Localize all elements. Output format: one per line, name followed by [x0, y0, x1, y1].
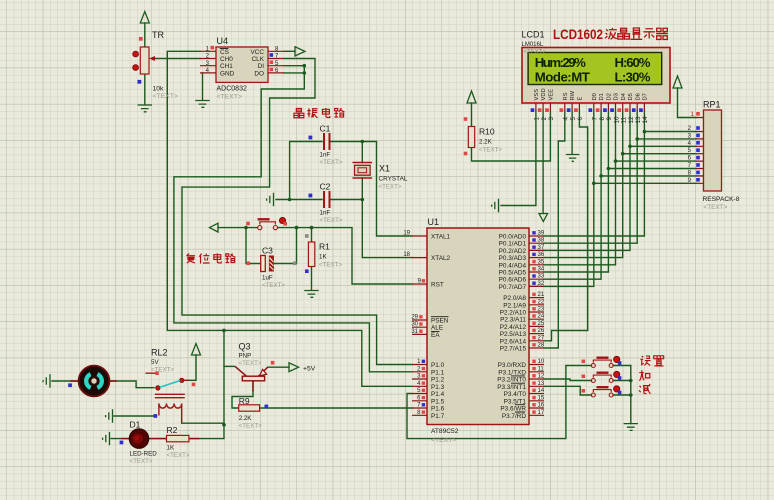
- wire D4 to P0.3: [544, 111, 623, 258]
- svg-text:X1: X1: [379, 164, 390, 174]
- svg-text:D0: D0: [592, 93, 598, 100]
- svg-text:33: 33: [538, 274, 545, 280]
- relay RL2: [146, 348, 196, 424]
- svg-text:<TEXT>: <TEXT>: [167, 452, 190, 459]
- junction D6 to RP1: [635, 137, 639, 141]
- wire VEE to R10 bottom: [472, 111, 551, 162]
- svg-text:P1.0: P1.0: [431, 362, 445, 369]
- svg-text:RW: RW: [570, 90, 576, 100]
- ground rotated at C2 left: [267, 193, 274, 206]
- svg-text:VEE: VEE: [549, 89, 555, 101]
- left pin stubs: [412, 236, 427, 415]
- svg-text:RP1: RP1: [703, 100, 721, 110]
- svg-text:P1.7: P1.7: [431, 413, 445, 420]
- svg-text:AT89C52: AT89C52: [431, 428, 459, 435]
- button SET: [582, 356, 622, 367]
- capacitor C1: [309, 124, 343, 167]
- svg-text:D1: D1: [599, 93, 605, 100]
- wire C1 left vertical: [290, 142, 322, 200]
- motor: [68, 366, 117, 397]
- svg-text:PSEN: PSEN: [431, 318, 449, 325]
- wire D3 branch to RP1 pin6: [616, 160, 697, 162]
- svg-text:P1.1: P1.1: [431, 369, 445, 376]
- svg-text:VDD: VDD: [541, 88, 547, 100]
- svg-text:GND: GND: [220, 70, 235, 77]
- wire C1 net: gnd-left to C1: [276, 199, 322, 201]
- svg-text:D5: D5: [628, 93, 634, 100]
- ground rotated at D1 left: [103, 432, 110, 445]
- svg-text:LM016L: LM016L: [522, 42, 544, 48]
- wire gnd to D1: [111, 438, 130, 440]
- svg-text:P1.5: P1.5: [431, 398, 445, 405]
- svg-text:P3.4/T0: P3.4/T0: [504, 391, 527, 398]
- svg-text:32: 32: [538, 281, 545, 287]
- ADC U4: [200, 36, 284, 101]
- svg-text:14: 14: [538, 388, 545, 394]
- svg-text:P1.6: P1.6: [431, 406, 445, 413]
- svg-text:D1: D1: [130, 420, 141, 430]
- junction C2 right / crystal bottom: [361, 198, 365, 202]
- wire U4 DO to join: [284, 72, 304, 74]
- wire D1 branch to RP1 pin8: [601, 175, 696, 177]
- svg-text:CLK: CLK: [252, 56, 265, 63]
- wire U4 CS to P1.3 staircase: [167, 51, 412, 386]
- svg-text:P0.4/AD4: P0.4/AD4: [499, 262, 527, 269]
- left pin names: [431, 234, 451, 420]
- svg-text:<TEXT>: <TEXT>: [320, 217, 343, 224]
- svg-text:4: 4: [563, 117, 570, 121]
- junction button plus right: [629, 379, 633, 383]
- svg-text:R1: R1: [319, 242, 330, 252]
- svg-text:TR: TR: [152, 30, 164, 40]
- wire D0 branch to RP1 pin9: [594, 182, 696, 184]
- svg-text:LCD1: LCD1: [522, 30, 545, 40]
- wire relay contact to power arrow: [184, 355, 196, 380]
- svg-text:LCD1602: LCD1602: [553, 27, 603, 42]
- svg-text:10k: 10k: [153, 86, 165, 93]
- wire button2 right: [613, 380, 631, 382]
- right pin numbers + squares: [538, 231, 545, 416]
- svg-text:12: 12: [628, 116, 635, 124]
- svg-text:P3.3/INT1: P3.3/INT1: [497, 384, 526, 391]
- junction C3 right branch: [295, 226, 299, 230]
- svg-text:21: 21: [538, 292, 545, 298]
- right pin names: [497, 234, 526, 420]
- svg-text:P0.5/AD5: P0.5/AD5: [499, 270, 527, 277]
- svg-text:P2.0/A8: P2.0/A8: [503, 295, 526, 302]
- junction D7 to RP1: [643, 130, 647, 134]
- svg-text:VSS: VSS: [534, 89, 540, 101]
- LCD1 display LM016L: [522, 30, 671, 124]
- svg-text:25: 25: [538, 321, 545, 327]
- wire motor right to relay switch: [110, 381, 154, 388]
- svg-text:DI: DI: [258, 63, 265, 70]
- svg-text:U4: U4: [217, 36, 229, 46]
- wire Q3 collector: [224, 365, 235, 367]
- diode D1 LED-RED: [120, 420, 200, 466]
- svg-text:RS: RS: [563, 92, 569, 100]
- svg-text:<TEXT>: <TEXT>: [524, 50, 547, 56]
- svg-text:CS: CS: [220, 49, 229, 56]
- wire D5 to P0.2: [544, 111, 630, 251]
- svg-text:26: 26: [538, 328, 545, 334]
- wire D2 branch to RP1 pin7: [608, 168, 696, 170]
- resistor pack RP1: [688, 100, 740, 212]
- label crystal circuit: [294, 108, 345, 118]
- resistor R1: [305, 234, 342, 273]
- wire reset net to RST: [218, 228, 412, 284]
- svg-text:D3: D3: [614, 93, 620, 100]
- svg-text:31: 31: [411, 329, 418, 335]
- wire VSS to ground: [501, 111, 536, 206]
- ground below RW: [566, 155, 579, 162]
- svg-text:H:60%: H:60%: [615, 55, 651, 70]
- svg-text:2: 2: [541, 117, 548, 121]
- wire crystal bottom to XTAL2: [362, 200, 412, 258]
- ground below R1: [304, 291, 318, 298]
- svg-text:16: 16: [538, 403, 545, 409]
- svg-text:P2.1/A9: P2.1/A9: [503, 302, 526, 309]
- svg-text:<TEXT>: <TEXT>: [431, 437, 456, 444]
- svg-text:18: 18: [403, 252, 410, 258]
- wire collector net vertical x224: [223, 330, 225, 424]
- svg-text:P2.7/A15: P2.7/A15: [500, 346, 527, 353]
- svg-text:P2.2/A10: P2.2/A10: [500, 310, 527, 317]
- svg-text:D6: D6: [635, 93, 641, 100]
- junction D3 to RP1: [614, 159, 618, 163]
- LCD pin numbers rotated with squares: [534, 116, 650, 124]
- svg-text:VCC: VCC: [251, 49, 265, 56]
- potentiometer TR: [133, 37, 155, 84]
- svg-text:CRYSTAL: CRYSTAL: [379, 176, 408, 183]
- wire RP1 pin1 to power arrow: [678, 88, 697, 118]
- wire R2 right to collector junction: [189, 425, 224, 439]
- svg-text:11: 11: [538, 366, 545, 372]
- power arrow up above TR: [140, 12, 149, 24]
- svg-text:XTAL2: XTAL2: [431, 255, 451, 262]
- svg-text:<TEXT>: <TEXT>: [262, 282, 285, 289]
- svg-text:E: E: [578, 97, 584, 101]
- junction D5 to RP1: [628, 145, 632, 149]
- terminal arrow left at reset net: [210, 223, 219, 232]
- svg-text:RESPACK-8: RESPACK-8: [703, 196, 740, 203]
- TR labels: [152, 30, 178, 100]
- svg-text:13: 13: [538, 381, 545, 387]
- svg-text:5V: 5V: [151, 359, 159, 366]
- svg-text:P2.6/A14: P2.6/A14: [500, 338, 527, 345]
- wire D6 branch to RP1 pin3: [637, 138, 696, 140]
- svg-text:9: 9: [606, 117, 613, 121]
- svg-text:<TEXT>: <TEXT>: [217, 94, 242, 101]
- wire C3 left branch: [246, 228, 260, 264]
- svg-text:24: 24: [538, 314, 545, 320]
- svg-text:<TEXT>: <TEXT>: [239, 423, 262, 430]
- svg-text:D4: D4: [621, 92, 627, 100]
- svg-text:R9: R9: [239, 396, 250, 406]
- svg-text:<TEXT>: <TEXT>: [153, 93, 178, 100]
- svg-text:1K: 1K: [319, 254, 327, 261]
- svg-text:2.2K: 2.2K: [479, 139, 493, 146]
- wire U4 GND to ground: [202, 73, 204, 100]
- transistor Q3 PNP: [235, 342, 316, 392]
- svg-text:15: 15: [538, 395, 545, 401]
- svg-text:1nF: 1nF: [320, 152, 331, 159]
- switch: [156, 386, 160, 390]
- wire U4 DI to join: [284, 65, 304, 67]
- wire D6 to P0.1: [544, 111, 637, 244]
- svg-text:D2: D2: [607, 93, 613, 100]
- svg-text:P1.2: P1.2: [431, 377, 445, 384]
- capacitor C3: [247, 246, 297, 290]
- junction D0 to RP1: [592, 182, 596, 186]
- junction D4 to RP1: [621, 152, 625, 156]
- wire motor left: [52, 380, 78, 382]
- svg-text:L:30%: L:30%: [615, 69, 651, 84]
- wire DI-DO join to P1.1 staircase: [174, 66, 412, 372]
- svg-text:P0.3/AD3: P0.3/AD3: [499, 255, 527, 262]
- wire P3.3 to button3: [544, 386, 592, 395]
- svg-text:23: 23: [538, 307, 545, 313]
- wire crystal top to XTAL1: [362, 142, 412, 237]
- wire U4 VCC to power arrow: [284, 50, 295, 52]
- svg-text:Mode:MT: Mode:MT: [535, 69, 590, 84]
- wire C2 right to crystal bottom junction: [330, 199, 362, 201]
- power arrow up above relay contact: [192, 344, 201, 356]
- junction relay coil / R2: [222, 423, 226, 427]
- power arrow up above RP1 pin1: [673, 76, 682, 88]
- svg-text:8: 8: [599, 117, 606, 121]
- svg-text:27: 27: [538, 335, 545, 341]
- wire D3 to P0.4: [544, 111, 616, 265]
- svg-text:6: 6: [577, 117, 584, 121]
- svg-text:+5V: +5V: [303, 365, 316, 372]
- wire P3.2 to button2: [544, 379, 592, 381]
- power arrow right at Q3 emitter +5V: [289, 363, 299, 372]
- label minus: [639, 384, 650, 394]
- svg-text:P0.1/AD1: P0.1/AD1: [499, 241, 527, 248]
- resistor R10: [464, 117, 503, 155]
- wire C3 right branch: [275, 228, 297, 264]
- wire D0 to P0.7: [544, 111, 594, 287]
- svg-text:U1: U1: [428, 217, 440, 227]
- svg-text:7: 7: [592, 117, 599, 121]
- wire R9 to P1.6: [260, 407, 412, 409]
- wire TR top to power arrow: [144, 23, 146, 47]
- junction R1 top: [310, 226, 314, 230]
- svg-text:CH0: CH0: [220, 56, 233, 63]
- junction C1 left / C2 left: [288, 198, 292, 202]
- svg-text:RL2: RL2: [151, 348, 168, 358]
- svg-text:<TEXT>: <TEXT>: [130, 458, 153, 465]
- svg-text:P0.2/AD2: P0.2/AD2: [499, 248, 527, 255]
- wire coil right to collector junction: [182, 422, 224, 424]
- svg-text:1K: 1K: [167, 445, 175, 452]
- svg-text:3: 3: [548, 117, 555, 121]
- svg-text:17: 17: [538, 410, 545, 416]
- svg-text:38: 38: [538, 238, 545, 244]
- svg-text:<TEXT>: <TEXT>: [319, 262, 342, 269]
- junction collector net top: [222, 329, 226, 333]
- svg-text:<TEXT>: <TEXT>: [239, 360, 262, 367]
- svg-text:2.2K: 2.2K: [239, 415, 253, 422]
- power arrow up above R10: [467, 91, 476, 103]
- LCD pin names rotated: [534, 88, 649, 100]
- svg-text:CH1: CH1: [220, 63, 233, 70]
- svg-text:P0.0/AD0: P0.0/AD0: [499, 234, 527, 241]
- junction C3 left branch: [244, 226, 248, 230]
- junction D2 to RP1: [607, 167, 611, 171]
- wire button1 right to ground vertical: [613, 366, 631, 424]
- svg-text:P2.4/A12: P2.4/A12: [500, 324, 527, 331]
- svg-text:36: 36: [538, 252, 545, 258]
- wire coil left to ground: [114, 415, 153, 417]
- svg-text:XTAL1: XTAL1: [431, 234, 451, 241]
- svg-text:P1.4: P1.4: [431, 391, 445, 398]
- label reset circuit: [186, 253, 235, 263]
- wire D7 branch to RP1 pin2: [644, 131, 696, 133]
- svg-text:P3.1/TXD: P3.1/TXD: [498, 369, 526, 376]
- svg-text:P3.6/WR: P3.6/WR: [500, 406, 526, 413]
- svg-text:P2.3/A11: P2.3/A11: [500, 317, 526, 324]
- svg-text:10: 10: [538, 359, 545, 365]
- button MINUS: [582, 386, 622, 397]
- label plus: [639, 370, 650, 381]
- svg-text:12: 12: [538, 374, 545, 380]
- svg-text:35: 35: [538, 259, 545, 265]
- wire RW to ground: [571, 111, 573, 155]
- coil winding: [159, 404, 182, 409]
- svg-text:28: 28: [538, 343, 545, 349]
- wire E to P2.6: [544, 111, 588, 341]
- wire Q3 emitter to +5V arrow: [268, 366, 290, 368]
- svg-text:14: 14: [642, 116, 649, 124]
- svg-text:30: 30: [411, 322, 418, 328]
- wire Q3 base to R9: [232, 381, 253, 408]
- power arrow right at U4 VCC: [295, 47, 305, 56]
- crystal X1: [353, 163, 408, 191]
- svg-text:P3.7/RD: P3.7/RD: [502, 413, 527, 420]
- wire D4 branch to RP1 pin5: [623, 153, 696, 155]
- wire TR wiper to U4 CH0: [152, 58, 200, 60]
- wire D2 to P0.5: [544, 111, 608, 273]
- svg-text:13: 13: [635, 116, 642, 124]
- wire P1.4 around MCU to button1: [407, 366, 592, 439]
- svg-text:RST: RST: [431, 282, 444, 289]
- svg-text:39: 39: [538, 231, 545, 237]
- svg-text:R10: R10: [479, 127, 495, 137]
- resistor R2: [167, 425, 190, 459]
- ground rotated at VSS: [492, 199, 499, 212]
- junction button minus right: [629, 393, 633, 397]
- reset button: [246, 217, 287, 229]
- svg-text:P3.0/RXD: P3.0/RXD: [498, 362, 527, 369]
- svg-text:P0.7/AD7: P0.7/AD7: [499, 284, 527, 291]
- svg-text:LED-RED: LED-RED: [130, 451, 158, 458]
- ground arrow down below VDD: [539, 214, 548, 222]
- LCD pin stubs: [536, 103, 645, 111]
- svg-text:C2: C2: [320, 182, 331, 192]
- svg-text:<TEXT>: <TEXT>: [151, 367, 174, 374]
- ground rotated at motor left: [43, 374, 50, 387]
- ground rotated at coil left: [106, 409, 113, 422]
- svg-text:ALE: ALE: [431, 325, 443, 332]
- junction DI join: [303, 64, 307, 68]
- svg-text:<TEXT>: <TEXT>: [479, 147, 502, 154]
- wire C1 right to crystal top junction: [330, 141, 362, 143]
- MCU U1 AT89C52: [403, 217, 545, 444]
- svg-text:<TEXT>: <TEXT>: [704, 204, 728, 211]
- coil core: [155, 394, 185, 397]
- wire VDD to ground arrow: [542, 111, 544, 214]
- ground below U4 GND: [195, 101, 209, 108]
- wire D7 to P0.0: [544, 111, 644, 237]
- svg-text:ADC0832: ADC0832: [217, 86, 247, 93]
- svg-text:19: 19: [403, 231, 410, 237]
- svg-text:1uF: 1uF: [262, 275, 273, 282]
- wire button3 right: [613, 394, 631, 396]
- wire crystal vertical: [361, 142, 363, 200]
- svg-text:P0.6/AD6: P0.6/AD6: [499, 277, 527, 284]
- ground below TR: [138, 105, 152, 112]
- label set: [640, 356, 663, 366]
- svg-text:P2.5/A13: P2.5/A13: [500, 331, 527, 338]
- svg-text:11: 11: [621, 116, 628, 123]
- svg-text:34: 34: [538, 267, 545, 273]
- svg-text:EA: EA: [431, 332, 440, 339]
- junction D1 to RP1: [599, 174, 603, 178]
- left pin numbers + squares: [403, 231, 421, 416]
- wire R1 top branch: [311, 228, 313, 242]
- junction C1 right / crystal top: [361, 140, 365, 144]
- svg-text:1: 1: [534, 117, 541, 121]
- svg-text:PNP: PNP: [239, 353, 252, 360]
- heading LCD1602 liquid crystal display: [553, 27, 668, 42]
- svg-text:1nF: 1nF: [320, 210, 331, 217]
- svg-text:10: 10: [613, 116, 620, 124]
- svg-text:R2: R2: [167, 425, 178, 435]
- svg-text:<TEXT>: <TEXT>: [320, 159, 343, 166]
- junction DO join: [303, 71, 307, 75]
- wire R1 bottom to ground: [311, 267, 313, 291]
- capacitor C2: [309, 182, 343, 225]
- resistor R9: [239, 396, 269, 430]
- svg-text:C3: C3: [262, 246, 273, 256]
- ground below buttons: [624, 424, 638, 431]
- svg-text:P1.3: P1.3: [431, 384, 445, 391]
- svg-text:P3.2/INT0: P3.2/INT0: [497, 377, 526, 384]
- svg-text:D7: D7: [643, 93, 649, 100]
- svg-text:C1: C1: [320, 124, 331, 134]
- svg-text:5: 5: [570, 117, 577, 121]
- power arrows and grounds: [43, 12, 682, 446]
- wire U4 CLK to P1.0 staircase: [182, 59, 412, 365]
- wire D1 to R2: [149, 438, 167, 440]
- wire D5 branch to RP1 pin4: [630, 145, 696, 147]
- right pin stubs: [529, 236, 544, 415]
- svg-text:29: 29: [411, 315, 418, 321]
- wire D1 to P0.6: [544, 111, 601, 280]
- svg-text:<TEXT>: <TEXT>: [379, 184, 402, 191]
- wire RS to P2.7: [544, 111, 565, 349]
- wire TR bottom to ground: [144, 74, 146, 105]
- svg-text:DO: DO: [254, 70, 264, 77]
- button PLUS: [582, 371, 622, 382]
- wire R10 top to power arrow: [471, 103, 473, 127]
- svg-text:37: 37: [538, 245, 545, 251]
- svg-text:22: 22: [538, 299, 545, 305]
- svg-text:Q3: Q3: [239, 342, 251, 352]
- svg-text:Hum:29%: Hum:29%: [535, 55, 586, 70]
